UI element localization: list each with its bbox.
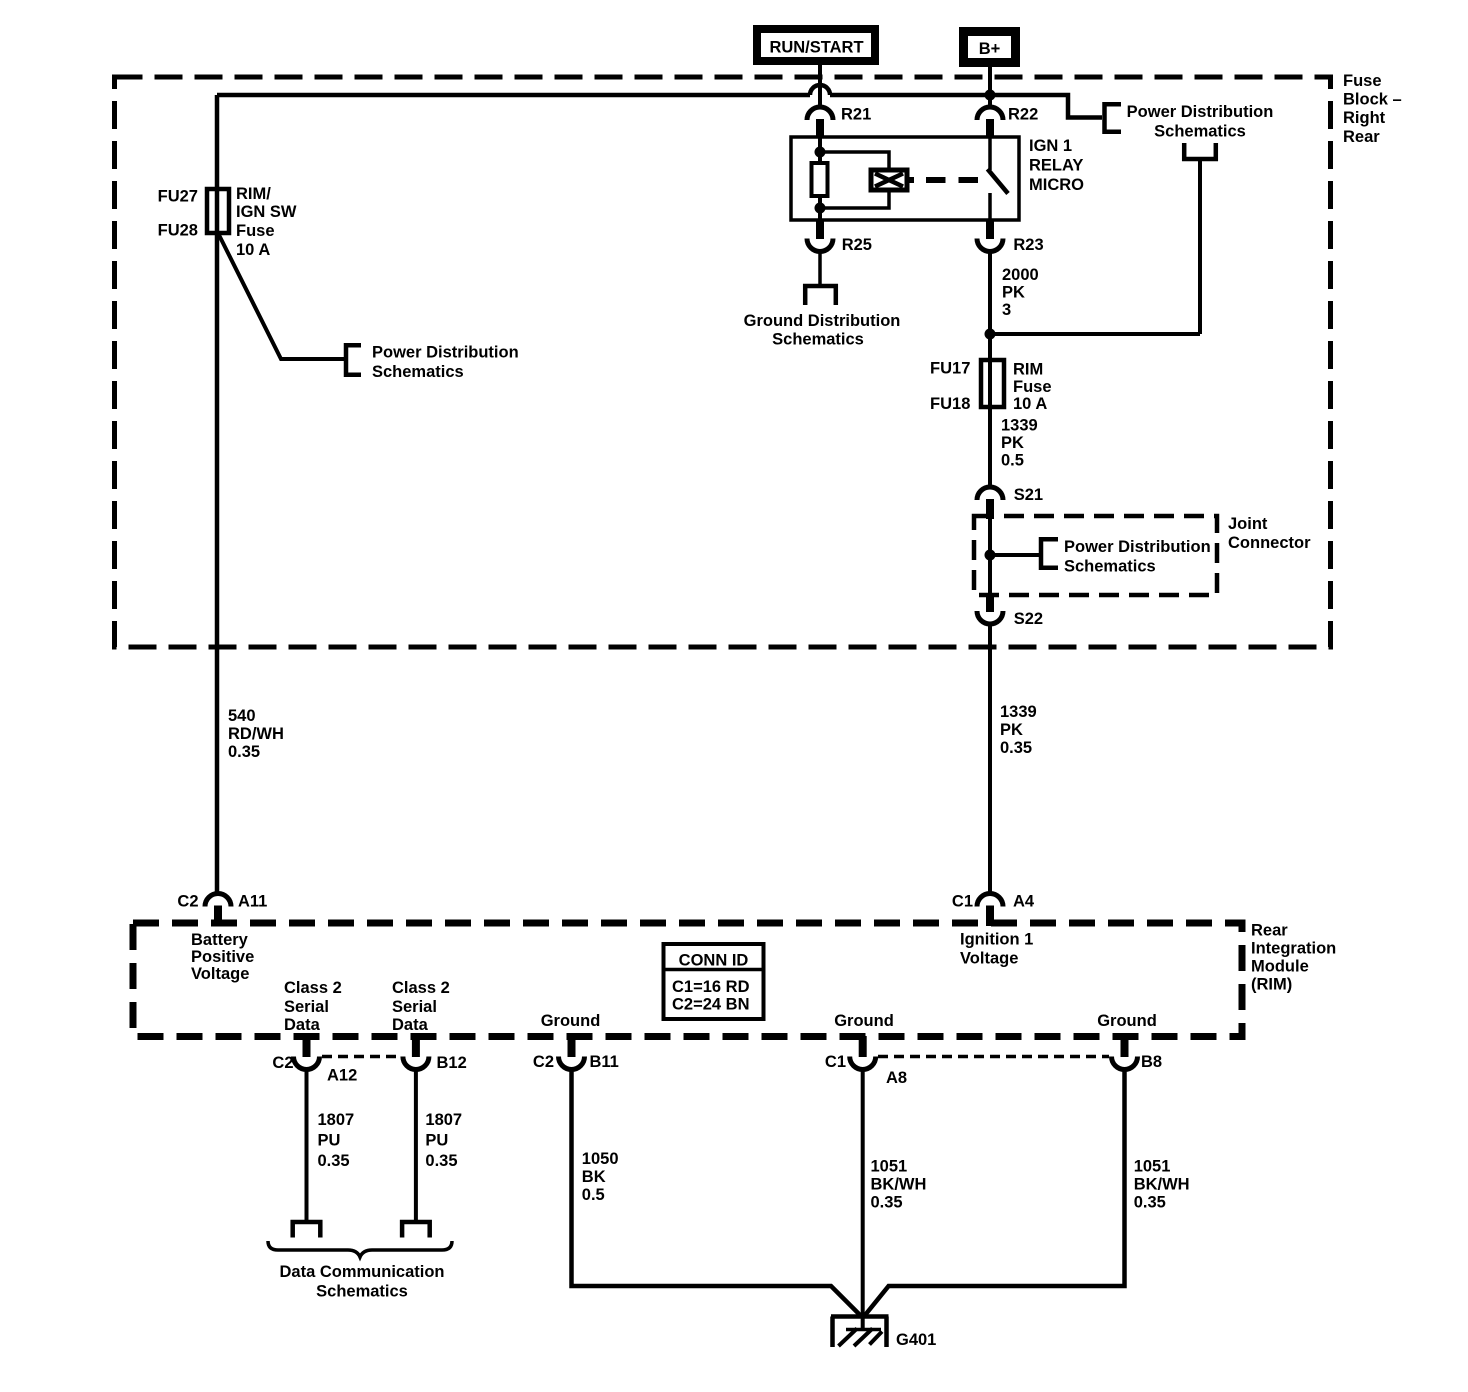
svg-text:R21: R21	[841, 106, 871, 124]
svg-text:1051: 1051	[1134, 1158, 1171, 1176]
svg-text:Integration: Integration	[1251, 940, 1336, 958]
svg-text:C2: C2	[533, 1053, 554, 1071]
svg-text:0.35: 0.35	[1134, 1194, 1166, 1212]
fuse FU17/FU18 (RIM Fuse 10 A)	[981, 360, 1004, 407]
label C2 (B11)	[533, 1053, 554, 1071]
fuse FU27/FU28 (RIM/IGN SW Fuse 10 A)	[207, 189, 229, 233]
connector pin C2/A11 arc	[205, 894, 231, 907]
svg-text:2000: 2000	[1002, 266, 1039, 284]
wire coil bypass loop	[820, 152, 889, 208]
pin C2/A12 stub	[303, 1036, 311, 1057]
svg-text:B12: B12	[437, 1054, 467, 1072]
label Ground (left)	[541, 1012, 601, 1030]
reference symbol bracket (joint connector Power Distribution)	[1039, 537, 1058, 570]
label B11	[590, 1053, 619, 1071]
connector box B+	[964, 32, 1016, 63]
label Battery Positive Voltage	[191, 931, 254, 983]
label Ground (center)	[834, 1012, 894, 1030]
wire B11 ground run	[572, 1070, 863, 1318]
svg-text:Serial: Serial	[284, 998, 329, 1016]
svg-text:Class 2: Class 2	[284, 979, 342, 997]
wire B8 ground run	[864, 1070, 1125, 1318]
svg-text:A4: A4	[1013, 893, 1035, 911]
pin R23 stub	[986, 220, 994, 239]
svg-text:FU28: FU28	[158, 222, 198, 240]
pin C2/A11 stub	[214, 906, 222, 927]
svg-text:RD/WH: RD/WH	[228, 725, 284, 743]
svg-text:Schematics: Schematics	[316, 1283, 408, 1301]
splice S21 stub	[986, 499, 994, 519]
label 1051 BK/WH 0.35 (center)	[871, 1158, 927, 1212]
reference symbol bracket (left Power Distribution)	[344, 343, 361, 377]
label 1051 BK/WH 0.35 (right)	[1134, 1158, 1190, 1212]
svg-text:Ground: Ground	[834, 1012, 894, 1030]
connector pin R22 arc	[977, 107, 1003, 120]
label C2 (A11)	[177, 893, 198, 911]
connector pin B8 arc	[1112, 1057, 1138, 1070]
svg-text:Data Communication: Data Communication	[279, 1263, 444, 1281]
svg-text:10 A: 10 A	[236, 241, 270, 259]
label Power Distribution Schematics (top right)	[1127, 103, 1274, 141]
svg-text:Data: Data	[284, 1016, 321, 1034]
wire bus continues to corner, down and right to reference symbol	[830, 95, 1102, 118]
relay switch upper contact	[988, 137, 992, 170]
svg-text:Class 2: Class 2	[392, 979, 450, 997]
svg-text:RELAY: RELAY	[1029, 157, 1083, 175]
svg-text:Block –: Block –	[1343, 91, 1402, 109]
label R22	[1008, 106, 1038, 124]
label RIM Fuse 10 A	[1013, 361, 1052, 414]
wire S22 down to C1/A4, label 1339 PK 0.35	[988, 624, 992, 894]
svg-text:0.35: 0.35	[228, 743, 260, 761]
wire diagonal from FU28 to left reference bracket	[219, 235, 344, 359]
svg-text:1339: 1339	[1001, 417, 1038, 435]
wire B12 down to data comm	[414, 1070, 418, 1221]
svg-text:0.35: 0.35	[425, 1152, 457, 1170]
svg-text:C2: C2	[177, 893, 198, 911]
svg-text:Fuse: Fuse	[236, 222, 275, 240]
wire relay coil vertical	[818, 137, 822, 220]
svg-text:FU17: FU17	[930, 360, 970, 378]
label RUN/START	[769, 39, 863, 57]
svg-text:0.35: 0.35	[871, 1194, 903, 1212]
svg-text:0.5: 0.5	[1001, 452, 1024, 470]
pin C2/B11 stub	[568, 1036, 576, 1057]
wire R25 to ground distribution	[818, 252, 822, 285]
pin R21 stub	[816, 119, 824, 138]
pin B12 stub	[412, 1036, 420, 1057]
svg-text:Module: Module	[1251, 958, 1309, 976]
svg-text:1050: 1050	[582, 1150, 619, 1168]
connector box RUN/START	[757, 29, 875, 61]
splice S22 arc	[977, 611, 1003, 624]
svg-text:Schematics: Schematics	[1064, 558, 1156, 576]
label 1050 BK 0.5	[582, 1150, 619, 1204]
svg-text:BK/WH: BK/WH	[871, 1176, 927, 1194]
svg-text:IGN SW: IGN SW	[236, 203, 297, 221]
label 540 RD/WH 0.35	[228, 707, 284, 761]
svg-text:RIM: RIM	[1013, 361, 1043, 379]
svg-text:Schematics: Schematics	[372, 363, 464, 381]
svg-text:Connector: Connector	[1228, 534, 1311, 552]
svg-text:BK/WH: BK/WH	[1134, 1176, 1190, 1194]
svg-text:C2: C2	[272, 1054, 293, 1072]
svg-text:G401: G401	[896, 1331, 936, 1349]
svg-text:R22: R22	[1008, 106, 1038, 124]
label Rear Integration Module (RIM)	[1251, 922, 1336, 994]
CONN ID table box	[664, 944, 764, 1019]
node junction dot B+ bus	[985, 90, 996, 101]
svg-text:(RIM): (RIM)	[1251, 976, 1292, 994]
label FU27 / FU28	[158, 188, 198, 240]
pin R25 stub	[816, 220, 824, 239]
wire B+ down to R22	[988, 67, 992, 107]
label IGN 1 RELAY MICRO	[1029, 137, 1084, 194]
label R25	[842, 236, 872, 254]
relay switch blade	[988, 169, 1009, 194]
svg-text:CONN ID: CONN ID	[679, 952, 749, 970]
svg-text:IGN 1: IGN 1	[1029, 137, 1072, 155]
svg-text:Data: Data	[392, 1016, 429, 1034]
relay solenoid box with bowtie	[871, 170, 907, 190]
ground G401 symbol	[831, 1317, 889, 1348]
label FU17 / FU18	[930, 360, 970, 414]
svg-text:S22: S22	[1014, 610, 1043, 628]
label A4	[1013, 893, 1035, 911]
dashed link C2/A12 to B12	[322, 1055, 400, 1059]
svg-text:PK: PK	[1001, 434, 1024, 452]
svg-text:RIM/: RIM/	[236, 185, 271, 203]
svg-text:A12: A12	[327, 1067, 357, 1085]
splice S21 arc	[977, 487, 1003, 500]
svg-text:PU: PU	[318, 1132, 341, 1150]
svg-text:MICRO: MICRO	[1029, 176, 1084, 194]
joint connector dashed box	[974, 516, 1217, 595]
svg-text:Rear: Rear	[1251, 922, 1288, 940]
label Fuse Block - Right Rear	[1343, 72, 1402, 146]
svg-text:C1=16 RD: C1=16 RD	[672, 978, 750, 996]
svg-text:S21: S21	[1014, 486, 1043, 504]
svg-text:PU: PU	[425, 1132, 448, 1150]
label A8	[886, 1069, 907, 1087]
svg-text:RUN/START: RUN/START	[769, 39, 863, 57]
wire inside joint connector	[988, 519, 992, 597]
label A11	[238, 893, 267, 911]
off-page symbol up (to power distribution)	[1182, 143, 1218, 161]
relay switch lower contact	[988, 193, 992, 220]
svg-text:R25: R25	[842, 236, 872, 254]
svg-text:Power Distribution: Power Distribution	[372, 344, 519, 362]
connector pin C2/A12 arc	[294, 1057, 320, 1070]
label Power Distribution Schematics (left)	[372, 344, 519, 382]
label 1807 PU 0.35 (column 2)	[425, 1111, 462, 1170]
reference symbol bracket (top right Power Distribution)	[1103, 102, 1122, 134]
connector pin R21 arc	[807, 107, 833, 120]
connector pin R23 arc	[977, 239, 1003, 252]
label Power Distribution Schematics (joint connector)	[1064, 538, 1211, 576]
wire A12 down to data comm	[305, 1070, 309, 1221]
off-page symbol down (ground distribution)	[803, 284, 838, 305]
label Joint Connector	[1228, 515, 1311, 552]
brace data communication	[268, 1241, 452, 1257]
svg-text:B8: B8	[1141, 1053, 1162, 1071]
svg-text:R23: R23	[1013, 236, 1043, 254]
svg-text:BK: BK	[582, 1168, 606, 1186]
connector pin B12 arc	[403, 1057, 429, 1070]
svg-text:1807: 1807	[425, 1111, 462, 1129]
svg-text:1339: 1339	[1000, 703, 1037, 721]
svg-text:Serial: Serial	[392, 998, 437, 1016]
wire bus hop over RUN/START wire	[810, 85, 830, 95]
off-page symbol down (B12)	[400, 1220, 432, 1238]
pin C1/A8 stub	[859, 1036, 867, 1057]
svg-text:Joint: Joint	[1228, 515, 1268, 533]
splice S22 stub	[986, 597, 994, 612]
svg-text:Rear: Rear	[1343, 128, 1380, 146]
svg-text:C2=24 BN: C2=24 BN	[672, 996, 750, 1014]
relay control dashed linkage	[907, 177, 914, 183]
label B+	[979, 40, 1001, 58]
node junction dot coil top	[815, 147, 826, 158]
label G401	[896, 1331, 936, 1349]
label Ignition 1 Voltage	[960, 931, 1033, 968]
label B12	[437, 1054, 467, 1072]
wire junction to off-page riser	[990, 332, 1200, 336]
svg-text:10 A: 10 A	[1013, 395, 1047, 413]
label Data Communication Schematics	[279, 1263, 444, 1301]
pin B8 stub	[1121, 1036, 1129, 1057]
connector pin R25 arc	[807, 239, 833, 252]
wire A8 ground run	[861, 1070, 865, 1331]
label R23	[1013, 236, 1043, 254]
wire left vertical from bus down to C2/A11	[215, 95, 220, 894]
svg-text:PK: PK	[1000, 721, 1023, 739]
wire from off-page symbol down and left to R23 wire	[1198, 161, 1202, 334]
connector pin C2/B11 arc	[559, 1057, 585, 1070]
label S21	[1014, 486, 1043, 504]
svg-text:Power Distribution: Power Distribution	[1064, 538, 1211, 556]
svg-text:Power Distribution: Power Distribution	[1127, 103, 1274, 121]
svg-text:0.5: 0.5	[582, 1186, 605, 1204]
label Class 2 Serial Data (column 2)	[392, 979, 450, 1034]
svg-text:B11: B11	[590, 1053, 619, 1071]
svg-text:Ground: Ground	[1097, 1012, 1157, 1030]
svg-text:Right: Right	[1343, 109, 1386, 127]
svg-text:Fuse: Fuse	[1013, 378, 1052, 396]
label CONN ID	[679, 952, 749, 970]
svg-text:FU18: FU18	[930, 395, 970, 413]
label Class 2 Serial Data (column 1)	[284, 979, 342, 1034]
RIM module dashed box	[133, 923, 1242, 1037]
svg-text:Fuse: Fuse	[1343, 72, 1382, 90]
svg-text:Ground: Ground	[541, 1012, 601, 1030]
label C2=24 BN	[672, 996, 750, 1014]
node junction dot coil bottom	[815, 203, 826, 214]
svg-text:Ignition 1: Ignition 1	[960, 931, 1033, 949]
label RIM/ IGN SW Fuse 10 A	[236, 185, 297, 259]
label A12	[327, 1067, 357, 1085]
label B8	[1141, 1053, 1162, 1071]
svg-text:C1: C1	[952, 893, 973, 911]
svg-text:A11: A11	[238, 893, 267, 911]
wire horizontal bus from left corner to B+ junction	[217, 93, 810, 98]
pin C1/A4 stub	[986, 906, 994, 927]
wire junction to reference bracket	[990, 553, 1039, 557]
relay coil element	[812, 163, 828, 196]
wire RUN/START down to R21	[818, 65, 822, 107]
svg-text:B+: B+	[979, 40, 1001, 58]
svg-text:Schematics: Schematics	[1154, 123, 1246, 141]
svg-text:540: 540	[228, 707, 256, 725]
label C1 (A4)	[952, 893, 973, 911]
svg-text:Positive: Positive	[191, 948, 254, 966]
svg-text:Voltage: Voltage	[960, 950, 1018, 968]
svg-text:Battery: Battery	[191, 931, 249, 949]
svg-text:PK: PK	[1002, 284, 1025, 302]
svg-text:Ground Distribution: Ground Distribution	[744, 312, 901, 330]
wire R23 down through fuse to S21, label 2000 PK 3	[988, 252, 992, 488]
relay K (IGN 1 RELAY MICRO) box	[791, 137, 1019, 220]
node junction dot at FU17 feed	[985, 329, 996, 340]
pin R22 stub	[986, 119, 994, 138]
label S22	[1014, 610, 1043, 628]
svg-text:Schematics: Schematics	[772, 331, 864, 349]
connector pin C1/A4 arc	[977, 894, 1003, 907]
label 1807 PU 0.35 (column 1)	[318, 1111, 355, 1170]
svg-text:1807: 1807	[318, 1111, 355, 1129]
connector pin C1/A8 arc	[850, 1057, 876, 1070]
node junction dot joint connector	[985, 550, 996, 561]
fuse block dashed box (Fuse Block - Right Rear)	[115, 77, 1331, 647]
svg-text:0.35: 0.35	[318, 1152, 350, 1170]
label C1 (A8)	[825, 1053, 846, 1071]
label Ground Distribution Schematics	[744, 312, 901, 349]
label R21	[841, 106, 871, 124]
svg-text:FU27: FU27	[158, 188, 198, 206]
dashed link C1/A8 to B8	[878, 1055, 1109, 1059]
label 1339 PK 0.5	[1001, 417, 1038, 470]
off-page symbol down (A12)	[291, 1220, 323, 1238]
svg-text:0.35: 0.35	[1000, 739, 1032, 757]
svg-text:C1: C1	[825, 1053, 846, 1071]
svg-text:1051: 1051	[871, 1158, 908, 1176]
svg-text:A8: A8	[886, 1069, 907, 1087]
label Ground (right)	[1097, 1012, 1157, 1030]
label C1=16 RD	[672, 978, 750, 996]
svg-text:3: 3	[1002, 301, 1011, 319]
label C2 (A12)	[272, 1054, 293, 1072]
svg-text:Voltage: Voltage	[191, 965, 249, 983]
